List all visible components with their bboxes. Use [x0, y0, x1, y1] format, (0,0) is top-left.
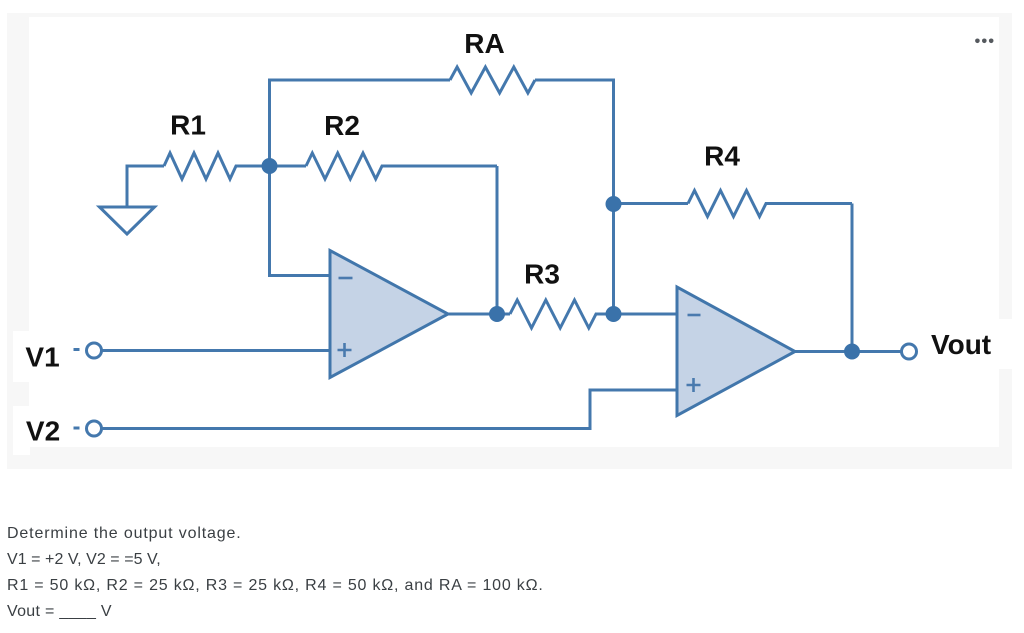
wire [852, 350, 902, 353]
node E junction [844, 344, 860, 360]
wire stub V1 [74, 348, 80, 351]
svg-text:R4: R4 [704, 141, 740, 172]
wire [535, 80, 614, 204]
terminal V1 [87, 343, 102, 358]
wire [102, 390, 677, 429]
question text [7, 521, 1017, 625]
wire [614, 313, 678, 316]
node B junction [489, 306, 505, 322]
ground [100, 207, 155, 234]
circuit image white area [29, 17, 999, 447]
resistor R2 [270, 153, 498, 179]
wire [270, 166, 331, 276]
svg-text:R1: R1 [170, 110, 206, 141]
wire [127, 166, 164, 207]
wire stub V2 [74, 427, 80, 430]
resistor RA [450, 67, 535, 93]
V1 label white patch [13, 331, 30, 382]
Vout label white patch [998, 319, 1012, 369]
svg-text:RA: RA [464, 28, 504, 59]
terminal Vout [902, 344, 917, 359]
resistor R3 [497, 300, 614, 328]
resistor R4 [614, 191, 853, 217]
op-amp U1 [330, 251, 448, 378]
node C junction [606, 196, 622, 212]
svg-text:V1: V1 [25, 342, 59, 373]
resistor R1 [164, 153, 270, 179]
wire [270, 80, 451, 166]
op-amp U2 [677, 287, 795, 416]
wire [448, 313, 497, 316]
node D junction [606, 306, 622, 322]
wire [612, 204, 615, 314]
wire [102, 349, 330, 352]
svg-text:V2: V2 [26, 416, 60, 447]
terminal V2 [87, 421, 102, 436]
node A junction [262, 158, 278, 174]
V2 label white patch [13, 406, 30, 455]
svg-text:Vout: Vout [931, 329, 991, 360]
svg-text:R2: R2 [324, 110, 360, 141]
wire [851, 204, 854, 352]
question card background [7, 13, 1012, 469]
svg-text:R3: R3 [524, 259, 560, 290]
menu dots icon [975, 39, 993, 44]
wire [496, 166, 499, 314]
wire [795, 350, 852, 353]
